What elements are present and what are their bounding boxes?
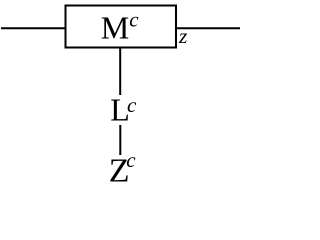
wire: right output from box M (net z): [176, 27, 240, 29]
svg-text:c: c: [126, 148, 136, 172]
svg-text:c: c: [129, 8, 139, 32]
label M^c inside box: [101, 8, 140, 46]
node label L^c: [110, 92, 137, 128]
svg-text:z: z: [178, 24, 188, 48]
svg-text:c: c: [127, 93, 137, 117]
svg-text:M: M: [101, 10, 129, 46]
box M^c (measurement block): [66, 6, 177, 48]
node label Z^c: [109, 148, 137, 189]
wire: vertical from node L down to node Z: [119, 125, 121, 155]
wire: left input to box M: [1, 27, 66, 29]
wire: vertical from box M down to node L: [119, 47, 121, 95]
